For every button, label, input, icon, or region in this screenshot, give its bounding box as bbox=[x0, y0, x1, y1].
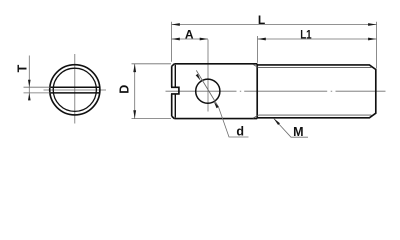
d diameter line through hole bbox=[196, 70, 218, 107]
slot lower chord bbox=[50, 92, 99, 94]
slot notch on left end bbox=[171, 87, 179, 94]
T dimension line bbox=[28, 56, 30, 99]
slot extension lines (left, for T) bbox=[24, 87, 51, 93]
d leader bbox=[219, 107, 249, 137]
D arrow top bbox=[133, 64, 136, 72]
svg-text:A: A bbox=[185, 27, 194, 41]
L1 arrow left bbox=[258, 38, 266, 41]
svg-text:L: L bbox=[258, 13, 265, 27]
slot upper chord bbox=[50, 86, 99, 88]
head outline bbox=[172, 64, 258, 119]
T arrow lower (points up) bbox=[28, 93, 31, 101]
D arrow bottom bbox=[133, 110, 136, 118]
thread root line top bbox=[259, 67, 372, 69]
A arrow right bbox=[200, 38, 208, 41]
T arrow upper (points down) bbox=[28, 80, 31, 88]
L dimension line bbox=[172, 24, 377, 26]
hole vertical centerline bbox=[207, 40, 209, 112]
svg-text:T: T bbox=[15, 64, 29, 72]
L1 extension line left bbox=[257, 36, 259, 63]
svg-text:L1: L1 bbox=[300, 29, 311, 42]
thread runout chamfer bottom bbox=[253, 115, 259, 118]
M leader bbox=[274, 118, 308, 137]
svg-text:d: d bbox=[236, 125, 244, 139]
thread root line bottom bbox=[259, 114, 372, 116]
thread runout chamfer top bbox=[253, 64, 259, 67]
outer circle (head OD) bbox=[50, 65, 100, 115]
L extension line right bbox=[376, 22, 378, 69]
D dimension line bbox=[134, 64, 136, 119]
main horizontal centerline (dash-dot) bbox=[166, 90, 386, 92]
L1 dimension line bbox=[258, 38, 377, 40]
L1 arrow right bbox=[368, 38, 376, 41]
d arrow lower (points up-left to circle) bbox=[214, 102, 219, 109]
head chamfer line (left) bbox=[174, 65, 176, 118]
D extension line bottom bbox=[132, 118, 172, 120]
vertical centerline front view bbox=[74, 54, 76, 124]
L arrow right bbox=[368, 23, 376, 26]
d arrow upper (points down-right to circle) bbox=[196, 74, 201, 81]
inner circle (chamfer) bbox=[53, 68, 96, 111]
D extension line top bbox=[132, 63, 172, 65]
A arrow left bbox=[172, 38, 180, 41]
A dimension line bbox=[172, 38, 209, 40]
L extension line left bbox=[171, 22, 173, 62]
L arrow left bbox=[172, 23, 180, 26]
M arrow (points up-left to thread line) bbox=[274, 118, 280, 125]
svg-text:D: D bbox=[117, 85, 131, 94]
thread body outline bbox=[257, 65, 376, 118]
svg-text:M: M bbox=[293, 125, 303, 139]
cross hole d bbox=[196, 79, 220, 103]
horizontal centerline front view bbox=[44, 89, 107, 91]
